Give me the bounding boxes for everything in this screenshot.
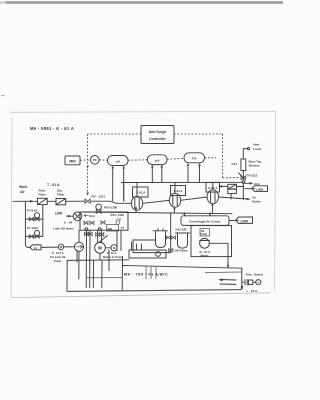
wire checkvalves to riser — [236, 186, 243, 188]
oil pump enclosure — [191, 226, 232, 257]
wire filter1 to filter2 — [47, 200, 56, 202]
valve on riser low — [169, 249, 173, 253]
tank left wall — [66, 260, 68, 291]
sense line pill1 a — [111, 166, 114, 201]
console tick marks — [116, 220, 124, 231]
aux pump box — [200, 229, 210, 236]
dashed signal drop to valve PV-1311 — [86, 134, 89, 196]
svg-text:C-61 A: C-61 A — [136, 191, 146, 195]
svg-text:Elec. Heater: Elec. Heater — [246, 273, 264, 277]
dashed signal line from controller to right — [174, 133, 223, 135]
label vent local — [253, 143, 261, 152]
heater body L-61A — [248, 280, 252, 285]
main pump risers — [97, 230, 99, 243]
label P-61.2A prelube — [50, 251, 66, 263]
valve above main pump a — [96, 233, 100, 237]
svg-text:T/A: T/A — [192, 157, 198, 161]
svg-text:Lube Oil tanks: Lube Oil tanks — [53, 226, 74, 230]
dashed bus pill3 to right — [205, 157, 217, 159]
controller pill UIC-2 — [148, 155, 168, 165]
svg-text:P - 61.2 A: P - 61.2 A — [52, 251, 64, 255]
console valve c — [101, 221, 105, 225]
recycle tap riser — [123, 183, 125, 202]
svg-text:Pump: Pump — [54, 259, 62, 263]
LWR oil pump circle — [73, 212, 82, 221]
reservoir left wall — [121, 257, 123, 290]
air outlet line — [219, 183, 251, 200]
svg-text:Filter: Filter — [57, 193, 65, 197]
discharge junction node — [242, 181, 245, 184]
svg-text:Grty: Grty — [89, 214, 95, 218]
svg-text:Pre Lube Oil: Pre Lube Oil — [50, 255, 66, 259]
valve PV-1311 — [85, 199, 90, 203]
oil return riser — [170, 213, 172, 253]
main pump W — [95, 242, 106, 253]
pump skid base box — [129, 250, 166, 258]
label box E-61.4 — [206, 183, 220, 193]
compressor stage 3 — [207, 190, 218, 204]
belt line — [99, 236, 108, 243]
console valve a — [84, 221, 88, 225]
svg-text:Outlet: Outlet — [252, 200, 261, 204]
svg-text:LWR: LWR — [55, 212, 63, 216]
svg-text:PV - 1311: PV - 1311 — [92, 195, 106, 199]
recycle arrow left — [219, 185, 228, 188]
svg-text:M6 - 9891 - K - 61 A: M6 - 9891 - K - 61 A — [30, 126, 74, 131]
valve on bypass 2 left — [29, 235, 33, 239]
svg-text:H: H — [257, 280, 259, 284]
prelube pump riser — [78, 230, 80, 242]
prelube drop — [78, 251, 80, 279]
down pipes to reservoir — [132, 242, 142, 250]
svg-text:Oil Filters: Oil Filters — [175, 248, 189, 252]
stage drop 2 — [174, 183, 176, 194]
svg-text:PY-131A: PY-131A — [27, 226, 38, 230]
oil filter vessel V1 — [153, 229, 168, 248]
svg-text:Air: Air — [20, 190, 25, 194]
vessel1 bypass loop — [133, 240, 171, 253]
dashed signal line from controller to left — [88, 133, 141, 135]
svg-text:1A: 1A — [34, 246, 37, 250]
main pump drop pipe — [99, 253, 101, 260]
reservoir right wall — [241, 268, 243, 288]
svg-text:VT: VT — [121, 226, 125, 230]
interstage wire stage2 to stage3 — [181, 197, 207, 200]
sense line pill2 a — [151, 165, 154, 183]
valve on down pipe b — [88, 232, 92, 236]
filter F2 — [56, 199, 66, 205]
svg-text:LWR: LWR — [256, 188, 264, 192]
atmosphere vent arrow — [245, 182, 260, 186]
label box E-61.3 — [171, 186, 186, 196]
svg-text:P - 61 A: P - 61 A — [107, 251, 116, 255]
LWR flag lower — [229, 217, 253, 223]
controller pill UIC-3 — [184, 153, 205, 163]
bypass line 2 — [25, 235, 42, 237]
valve vessel2 inlet — [171, 236, 175, 239]
label centrifugal air comp — [181, 216, 229, 226]
bypass branch right riser — [42, 205, 44, 237]
instrument PY-84A — [34, 213, 39, 220]
svg-text:M6 - 789 - 01 A/B/C: M6 - 789 - 01 A/B/C — [124, 272, 168, 277]
arrow into comp label b — [209, 213, 212, 216]
compressor stage 2 — [169, 193, 180, 207]
valve PSV-1308 — [96, 204, 102, 213]
controller pill UIC-1 — [108, 156, 129, 166]
svg-text:Vent: Vent — [253, 143, 259, 147]
wire PV-1311 to compressor inlet — [90, 201, 131, 203]
svg-text:L - 61 A: L - 61 A — [247, 289, 259, 293]
drain to flag wire — [25, 236, 30, 247]
svg-text:3-61 A/B: 3-61 A/B — [175, 228, 186, 232]
valve above main pump b — [100, 233, 104, 237]
stray pen mark left margin — [1, 94, 5, 97]
oil filter vessel V2 — [176, 233, 190, 248]
vent pipe — [243, 149, 247, 159]
inlet air line with arrow — [13, 200, 38, 203]
svg-text:MIN: MIN — [69, 160, 76, 164]
sump header wire — [86, 277, 122, 279]
svg-text:p/A: p/A — [155, 159, 161, 163]
bypass branch left riser — [24, 201, 26, 236]
interstage wire stage1 to stage2 — [143, 200, 170, 203]
oil header line — [80, 212, 232, 214]
svg-text:PY-8 4A: PY-8 4A — [27, 209, 37, 213]
svg-text:B/B: B/B — [108, 227, 113, 231]
anti-surge controller box — [141, 126, 174, 144]
wire flag to motor M1 — [41, 246, 58, 248]
secondary filter label — [57, 189, 65, 197]
heater motor circle — [253, 280, 261, 285]
stage drop 1 — [136, 183, 138, 197]
svg-text:T - 61 A: T - 61 A — [47, 183, 60, 187]
console down pipes mid — [86, 230, 90, 287]
svg-text:PSV- 1309: PSV- 1309 — [111, 213, 125, 217]
label box C-61 A — [133, 187, 149, 197]
motor M2 — [111, 245, 117, 251]
tag flag 1A — [30, 245, 41, 250]
label P-61 A main pump — [103, 251, 123, 259]
stage1 drain stub — [135, 206, 138, 212]
dashed bus PC to UIC pill 1 — [99, 159, 107, 161]
label blow-off silencer — [249, 160, 262, 168]
inlet air label — [19, 185, 28, 194]
filter F1 — [38, 198, 48, 204]
dashed bus pill1 to pill2 — [128, 159, 148, 161]
sense line pill2 b — [161, 165, 164, 183]
compressor stage 1 — [131, 196, 142, 210]
primary filter label — [39, 189, 47, 197]
coupling wire M1-P1 — [64, 246, 75, 248]
prelube suction line — [76, 250, 78, 262]
instrument PY-131A — [34, 230, 39, 236]
svg-text:Motor: Motor — [201, 254, 210, 258]
svg-text:LWR: LWR — [241, 219, 249, 223]
riser to silencer — [242, 171, 244, 181]
dashed signal drop to valve TV-1313 — [222, 134, 224, 178]
sense line pill3 a — [187, 163, 190, 183]
sheet border frame — [10, 111, 276, 297]
valve vessel1 outlet — [166, 236, 170, 239]
aux drop pipe — [108, 250, 110, 271]
pump P-61.2A — [74, 242, 83, 251]
shaft wire W to motor — [105, 247, 111, 249]
svg-text:c/A: c/A — [115, 159, 121, 163]
valve TV-1313 — [239, 173, 246, 180]
reservoir top edge — [123, 266, 242, 269]
svg-text:E-61.3: E-61.3 — [174, 189, 183, 193]
LWR arrow left — [66, 215, 73, 218]
discharge check valve A — [228, 184, 237, 189]
vent outlet circle — [248, 148, 250, 150]
drop into reservoir — [227, 243, 230, 268]
stage drop 3 — [212, 182, 214, 190]
sense line pill3 b — [198, 163, 201, 183]
reservoir corner blob — [241, 286, 243, 289]
reservoir inner line — [205, 271, 242, 274]
valve on down pipe a — [84, 232, 88, 236]
heater flange — [242, 280, 247, 285]
base drop pipe a — [92, 260, 94, 287]
svg-text:J-61: J-61 — [231, 162, 237, 166]
actuator circle prelube valve — [85, 228, 88, 231]
actuator circle main valve — [98, 228, 101, 231]
console drop pipes — [117, 230, 121, 250]
label Gty — [84, 214, 89, 216]
label air outlet — [252, 195, 261, 203]
valve on bypass 1 left — [29, 217, 33, 221]
pump base line — [67, 259, 129, 262]
oil level marks — [218, 278, 236, 284]
stage3 drain stub — [211, 203, 214, 213]
valve on bypass 1 right — [35, 217, 39, 221]
motor M1 — [58, 244, 63, 249]
svg-text:Main L.O. Pump: Main L.O. Pump — [103, 255, 123, 259]
arrow into comp label a — [183, 213, 186, 217]
wire filter2 to PV-1311 — [66, 200, 85, 202]
bypass line 1 — [25, 218, 42, 220]
dashed signal to TV-1313 actuator — [223, 177, 240, 180]
console valve b — [90, 221, 94, 225]
label R-61 A — [200, 250, 212, 258]
valve on bypass 2 right — [35, 235, 39, 239]
svg-text:PSV-1308: PSV-1308 — [104, 206, 117, 210]
scan top edge band — [0, 1, 283, 4]
svg-text:Work: Work — [19, 185, 28, 189]
svg-text:Controller: Controller — [149, 137, 166, 141]
svg-text:TV-1313: TV-1313 — [246, 174, 257, 178]
silencer J-61 — [241, 159, 246, 171]
svg-text:Silencer: Silencer — [249, 164, 261, 168]
svg-text:Anti Surge: Anti Surge — [149, 130, 167, 134]
svg-text:Atm: Atm — [254, 182, 260, 186]
LWR flag upper — [245, 186, 268, 192]
svg-text:Centrifugal Air Comp.: Centrifugal Air Comp. — [189, 219, 221, 223]
base drop pipe b — [101, 260, 103, 288]
compressor interstage header — [122, 181, 244, 183]
svg-text:Local: Local — [253, 147, 261, 151]
reservoir bottom — [67, 290, 242, 292]
pump discharge wire — [209, 242, 228, 244]
suction dip tubes — [146, 267, 156, 280]
controller circle PC — [91, 156, 100, 165]
svg-text:C - 94: C - 94 — [64, 220, 73, 224]
svg-text:Filter: Filter — [39, 193, 47, 197]
dashed bus pill2 to pill3 — [167, 158, 184, 159]
MIN selector box — [65, 156, 80, 165]
svg-text:Pump: Pump — [201, 233, 208, 236]
oil console box — [80, 212, 128, 230]
console inner box — [107, 225, 119, 232]
discharge check valve B — [228, 189, 237, 193]
dashed link MIN to controller PC — [80, 159, 91, 161]
vessel1 outlet wire — [166, 236, 167, 238]
sense line pill1 b — [122, 166, 125, 201]
stage2 drain stub — [173, 206, 176, 213]
main oil pump R-61A — [200, 238, 210, 248]
